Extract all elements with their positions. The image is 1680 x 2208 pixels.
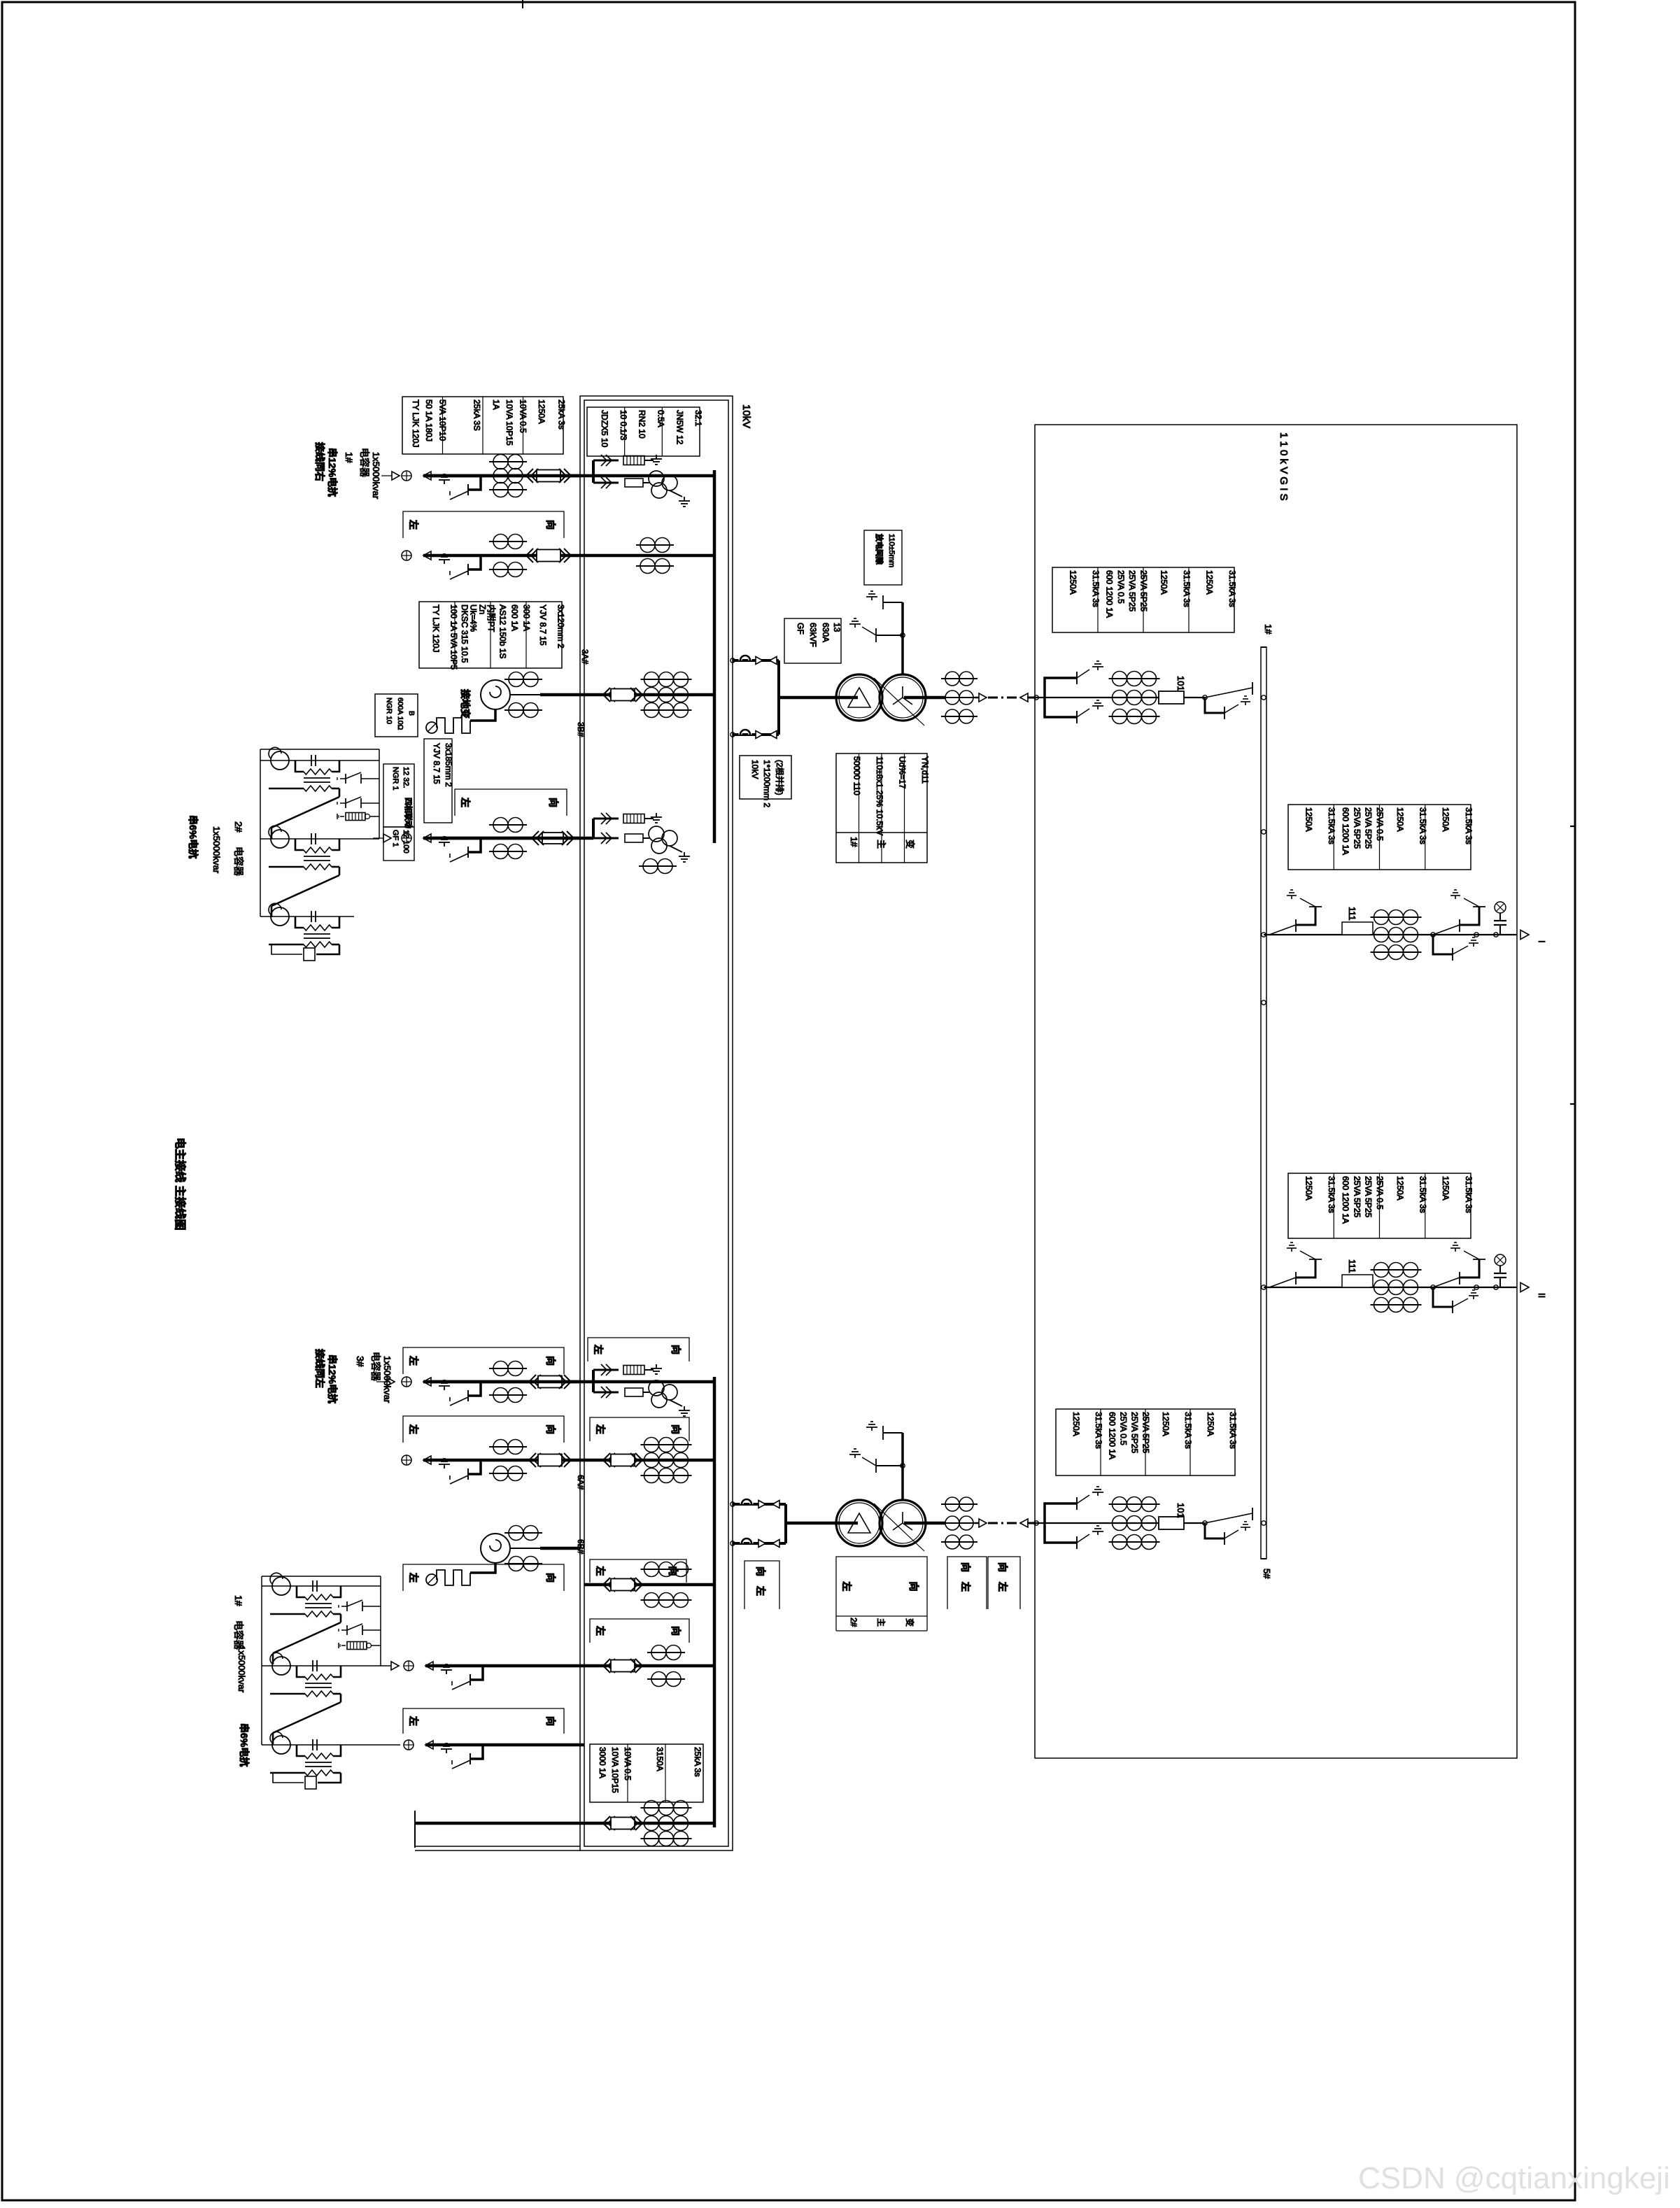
- svg-text:向: 向: [545, 1573, 556, 1583]
- svg-text:主: 主: [876, 840, 887, 849]
- svg-text:3x185mm 2: 3x185mm 2: [444, 743, 453, 787]
- svg-text:II: II: [1537, 1293, 1547, 1298]
- svg-text:25VA 0.5: 25VA 0.5: [1118, 1412, 1128, 1445]
- svg-text:向: 向: [670, 1424, 682, 1434]
- svg-text:B: B: [407, 711, 416, 716]
- svg-text:50000 110: 50000 110: [852, 756, 861, 795]
- svg-text:25VA 5P25: 25VA 5P25: [1364, 1176, 1374, 1217]
- svg-text:1250A: 1250A: [1441, 807, 1450, 832]
- svg-text:接线同左: 接线同左: [314, 1349, 325, 1388]
- svg-text:25VA 0.5: 25VA 0.5: [1375, 1176, 1385, 1210]
- svg-text:31.5kA 3s: 31.5kA 3s: [1327, 1176, 1336, 1213]
- svg-text:向: 向: [545, 1356, 556, 1366]
- svg-text:0.5A: 0.5A: [656, 410, 665, 427]
- svg-text:向: 向: [670, 1345, 682, 1354]
- svg-text:主: 主: [876, 1618, 886, 1627]
- svg-text:向: 向: [668, 1566, 679, 1576]
- svg-text:电容器: 电容器: [370, 1352, 381, 1381]
- svg-text:YN,d11: YN,d11: [920, 756, 930, 784]
- svg-text:25VA 0.5: 25VA 0.5: [1375, 807, 1385, 841]
- svg-text:101: 101: [1176, 676, 1186, 691]
- svg-text:1#: 1#: [1263, 624, 1273, 635]
- svg-text:300 1A: 300 1A: [521, 604, 531, 631]
- svg-text:1250A: 1250A: [1161, 1412, 1171, 1436]
- svg-text:YJV 8.7 15: YJV 8.7 15: [432, 743, 442, 784]
- svg-text:50 1A 180J: 50 1A 180J: [424, 399, 434, 441]
- svg-text:四相联动: 四相联动: [404, 798, 414, 828]
- svg-text:I: I: [1537, 940, 1547, 943]
- svg-text:31.5kA 3s: 31.5kA 3s: [1327, 807, 1336, 844]
- svg-text:串12%电抗: 串12%电抗: [327, 1354, 338, 1403]
- svg-text:左: 左: [408, 1424, 419, 1434]
- svg-text:向: 向: [545, 520, 556, 530]
- svg-text:31.5kA 3s: 31.5kA 3s: [1094, 1412, 1103, 1449]
- svg-text:3150A: 3150A: [655, 1747, 665, 1771]
- svg-text:1250A: 1250A: [1395, 1176, 1405, 1201]
- svg-text:1250A: 1250A: [1304, 1176, 1313, 1201]
- svg-text:31.5kA 3s: 31.5kA 3s: [1228, 1412, 1238, 1449]
- svg-text:电容器: 电容器: [233, 847, 244, 876]
- svg-text:左: 左: [408, 519, 419, 530]
- svg-text:AS12 150b 1S: AS12 150b 1S: [497, 604, 507, 658]
- svg-text:31.5kA 3s: 31.5kA 3s: [1464, 1176, 1474, 1213]
- svg-text:向: 向: [545, 1424, 556, 1434]
- svg-text:10VA 0.5: 10VA 0.5: [518, 399, 528, 433]
- svg-text:6A#: 6A#: [576, 1475, 586, 1490]
- svg-text:左: 左: [460, 797, 471, 807]
- svg-text:左: 左: [593, 1344, 604, 1354]
- svg-text:1x5000kvar: 1x5000kvar: [211, 826, 222, 874]
- svg-text:31.5kA 3s: 31.5kA 3s: [1183, 1412, 1193, 1449]
- svg-text:1250A: 1250A: [1206, 1412, 1215, 1436]
- svg-text:10kV: 10kV: [750, 760, 760, 779]
- svg-text:1250A: 1250A: [1441, 1176, 1450, 1201]
- svg-text:3x120mm 2: 3x120mm 2: [556, 604, 565, 649]
- svg-text:JN5W 12: JN5W 12: [675, 410, 684, 445]
- svg-text:1250A: 1250A: [537, 399, 546, 424]
- svg-text:1#: 1#: [233, 1595, 244, 1606]
- svg-text:5VA 10P10: 5VA 10P10: [437, 399, 447, 441]
- svg-text:向: 向: [960, 1562, 971, 1572]
- svg-text:Uk=4%: Uk=4%: [469, 604, 479, 632]
- svg-text:串6%电抗: 串6%电抗: [239, 1723, 250, 1767]
- svg-text:接线同右: 接线同右: [314, 442, 325, 481]
- svg-text:25VA 5P25: 25VA 5P25: [1352, 807, 1362, 849]
- svg-text:25VA 5P25: 25VA 5P25: [1129, 1412, 1139, 1453]
- svg-text:TY LJK 120J: TY LJK 120J: [411, 399, 421, 447]
- svg-text:GF 1: GF 1: [391, 830, 400, 847]
- svg-text:10VA 10P15: 10VA 10P15: [610, 1747, 620, 1793]
- svg-text:1x5000kvar: 1x5000kvar: [237, 1646, 247, 1693]
- svg-text:电容器: 电容器: [359, 448, 370, 477]
- svg-text:YJV 8.7 15: YJV 8.7 15: [538, 604, 548, 646]
- svg-text:10kV: 10kV: [740, 404, 752, 428]
- svg-text:600 1A: 600 1A: [509, 604, 519, 631]
- svg-text:左: 左: [408, 1355, 419, 1366]
- svg-text:串12%电抗: 串12%电抗: [327, 448, 338, 497]
- svg-text:31.5kA 3s: 31.5kA 3s: [1227, 570, 1237, 607]
- svg-text:10VA 10P15: 10VA 10P15: [504, 399, 514, 446]
- svg-text:1250A: 1250A: [1395, 807, 1405, 832]
- svg-text:630A: 630A: [821, 623, 831, 642]
- svg-text:NGR 10: NGR 10: [385, 698, 393, 724]
- svg-text:3#: 3#: [355, 1356, 366, 1367]
- svg-text:25VA 5P25: 25VA 5P25: [1138, 570, 1148, 611]
- svg-text:1250A: 1250A: [1068, 570, 1078, 595]
- svg-text:31.5kA 3s: 31.5kA 3s: [1418, 1176, 1428, 1213]
- svg-text:JDZX5 10: JDZX5 10: [600, 410, 609, 448]
- svg-text:内附PT: 内附PT: [486, 604, 496, 632]
- svg-text:NGR 1: NGR 1: [391, 767, 400, 791]
- svg-text:25VA 5P25: 25VA 5P25: [1141, 1412, 1150, 1453]
- svg-text:600 1200 1A: 600 1200 1A: [1107, 1412, 1117, 1459]
- svg-text:TY LJK 120J: TY LJK 120J: [431, 604, 441, 652]
- svg-text:600 1200 1A: 600 1200 1A: [1105, 570, 1115, 618]
- svg-text:放电间隙: 放电间隙: [875, 533, 884, 565]
- svg-text:25kA 3s: 25kA 3s: [557, 399, 567, 430]
- svg-text:左: 左: [997, 1581, 1008, 1592]
- svg-text:101: 101: [1176, 1503, 1186, 1518]
- svg-text:2#: 2#: [849, 1618, 859, 1627]
- svg-text:左: 左: [595, 1566, 606, 1576]
- svg-text:111: 111: [1347, 907, 1357, 921]
- svg-text:3B#: 3B#: [576, 722, 586, 737]
- svg-text:左: 左: [755, 1585, 766, 1596]
- svg-text:CSDN @cqtianxingkeji: CSDN @cqtianxingkeji: [1358, 2161, 1670, 2195]
- svg-text:600A 10Ω: 600A 10Ω: [396, 698, 404, 730]
- svg-text:接地变: 接地变: [460, 689, 471, 719]
- svg-text:电主接线 主接线图: 电主接线 主接线图: [174, 1138, 187, 1230]
- svg-text:25kA 3s: 25kA 3s: [693, 1747, 703, 1777]
- svg-text:变: 变: [905, 1618, 915, 1627]
- svg-text:25VA 0.5: 25VA 0.5: [1116, 570, 1126, 604]
- svg-text:RN2 10: RN2 10: [637, 410, 647, 439]
- svg-text:5#: 5#: [1262, 1569, 1272, 1579]
- svg-text:1250A: 1250A: [1071, 1412, 1081, 1436]
- svg-text:31.5kA 3s: 31.5kA 3s: [1182, 570, 1192, 607]
- svg-text:左: 左: [408, 1715, 419, 1726]
- svg-text:Zn: Zn: [477, 604, 487, 614]
- svg-text:32.1: 32.1: [693, 410, 703, 427]
- svg-text:31.5kA 3s: 31.5kA 3s: [1464, 807, 1474, 844]
- svg-text:左: 左: [595, 1424, 606, 1434]
- svg-text:2#: 2#: [233, 821, 244, 833]
- svg-text:Ud%=17: Ud%=17: [897, 756, 907, 789]
- svg-text:1250A: 1250A: [1304, 807, 1313, 832]
- svg-text:31.5kA 3s: 31.5kA 3s: [1091, 570, 1101, 607]
- svg-text:1 1 0 k V G I S: 1 1 0 k V G I S: [1278, 432, 1290, 501]
- svg-text:1250A: 1250A: [1159, 570, 1169, 595]
- svg-text:1x5000kvar: 1x5000kvar: [382, 1356, 393, 1403]
- svg-text:1#: 1#: [849, 837, 859, 847]
- svg-text:GF: GF: [796, 623, 805, 635]
- svg-text:10VA 0.5: 10VA 0.5: [623, 1747, 633, 1781]
- svg-text:12 32.: 12 32.: [402, 767, 410, 788]
- svg-text:6B#: 6B#: [576, 1539, 586, 1555]
- svg-text:600 1200 1A: 600 1200 1A: [1341, 807, 1350, 855]
- svg-text:1250A: 1250A: [1204, 570, 1214, 595]
- svg-text:向: 向: [670, 1626, 682, 1636]
- svg-text:左: 左: [841, 1581, 852, 1592]
- svg-text:25VA 5P25: 25VA 5P25: [1364, 807, 1374, 849]
- svg-text:25kA 3S: 25kA 3S: [472, 399, 481, 431]
- svg-text:(2根并排): (2根并排): [775, 760, 784, 795]
- svg-text:向: 向: [997, 1562, 1008, 1572]
- svg-text:左: 左: [408, 1572, 419, 1583]
- svg-text:DKSC 315 10.5: DKSC 315 10.5: [460, 604, 470, 663]
- svg-text:1x5000kvar: 1x5000kvar: [371, 452, 381, 500]
- svg-text:1#: 1#: [344, 452, 355, 463]
- svg-text:12 100: 12 100: [402, 830, 410, 854]
- svg-text:1A: 1A: [491, 399, 501, 410]
- svg-text:31.5kA 3s: 31.5kA 3s: [1418, 807, 1428, 844]
- svg-text:63kVF: 63kVF: [808, 623, 818, 647]
- svg-text:25VA 5P25: 25VA 5P25: [1127, 570, 1137, 611]
- svg-text:左: 左: [960, 1581, 971, 1592]
- svg-text:左: 左: [595, 1625, 606, 1636]
- svg-text:变: 变: [905, 840, 915, 849]
- svg-text:13: 13: [832, 623, 842, 632]
- svg-text:向: 向: [548, 798, 559, 807]
- svg-text:600 1200 1A: 600 1200 1A: [1341, 1176, 1350, 1224]
- svg-text:111: 111: [1347, 1259, 1357, 1273]
- svg-text:100 1A 5VA 10P5: 100 1A 5VA 10P5: [449, 604, 458, 670]
- svg-text:3A#: 3A#: [580, 649, 590, 665]
- svg-text:3000 1A: 3000 1A: [598, 1747, 607, 1778]
- svg-text:25VA 5P25: 25VA 5P25: [1352, 1176, 1362, 1217]
- svg-text:向: 向: [755, 1566, 766, 1576]
- svg-text:串6%电抗: 串6%电抗: [188, 815, 199, 858]
- svg-text:向: 向: [908, 1582, 919, 1592]
- svg-text:110±8x1.25% 10.5kV: 110±8x1.25% 10.5kV: [875, 756, 884, 835]
- svg-text:向: 向: [545, 1716, 556, 1726]
- svg-text:110±5mm: 110±5mm: [887, 534, 896, 567]
- svg-text:1*1200mm 2: 1*1200mm 2: [762, 760, 772, 807]
- svg-text:10 0.1/3: 10 0.1/3: [619, 410, 628, 441]
